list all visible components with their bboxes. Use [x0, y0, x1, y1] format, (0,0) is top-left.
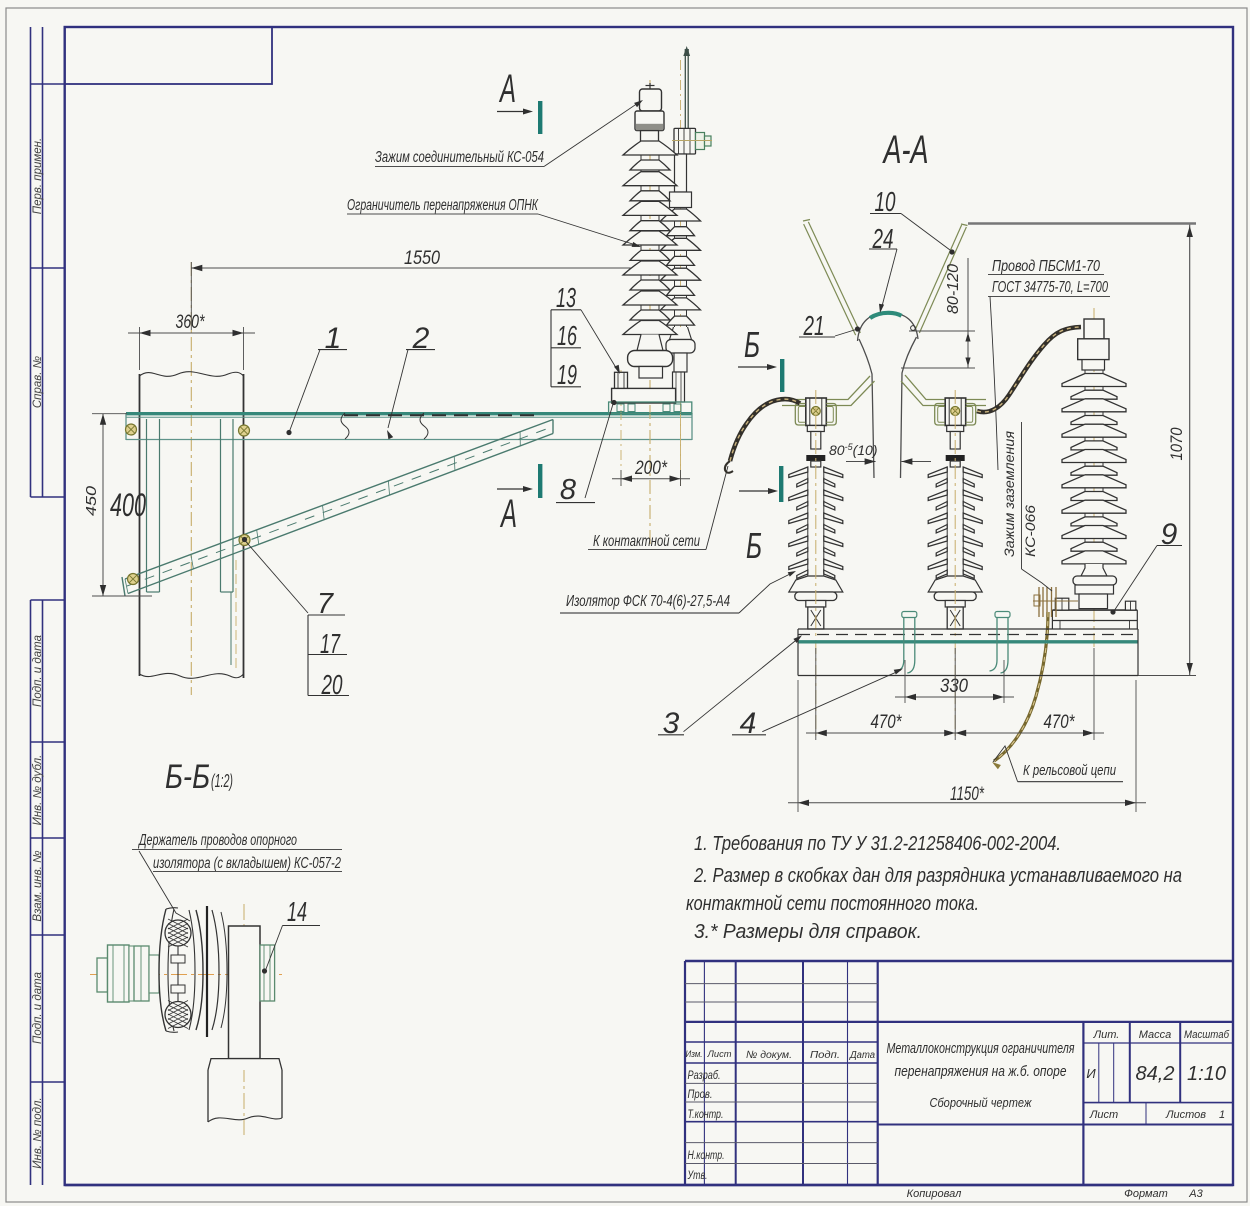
svg-text:80-120: 80-120 — [945, 264, 962, 314]
svg-text:ГОСТ 34775-70, L=700: ГОСТ 34775-70, L=700 — [992, 279, 1108, 296]
svg-text:2. Размер в скобках дан для ра: 2. Размер в скобках дан для разрядника у… — [693, 865, 1182, 887]
svg-text:А: А — [499, 67, 516, 111]
svg-text:84,2: 84,2 — [1136, 1063, 1175, 1085]
svg-text:450: 450 — [83, 485, 100, 516]
svg-text:Лист: Лист — [707, 1049, 732, 1060]
svg-text:Металлоконструкция ограничител: Металлоконструкция ограничителя — [887, 1040, 1075, 1057]
svg-text:Подп.: Подп. — [810, 1049, 840, 1061]
svg-text:Сборочный чертеж: Сборочный чертеж — [930, 1095, 1033, 1110]
svg-text:Формат: Формат — [1124, 1188, 1168, 1200]
svg-text:Инв. № дубл.: Инв. № дубл. — [32, 755, 44, 826]
svg-text:контактной сети постоянного то: контактной сети постоянного тока. — [686, 893, 979, 915]
svg-text:А3: А3 — [1188, 1188, 1203, 1200]
svg-text:3.* Размеры для справок.: 3.* Размеры для справок. — [694, 921, 922, 943]
svg-text:изолятора (с вкладышем) КС-057: изолятора (с вкладышем) КС-057-2 — [153, 855, 341, 872]
svg-text:(1:2): (1:2) — [211, 771, 233, 791]
svg-text:Инв. № подл.: Инв. № подл. — [32, 1097, 44, 1168]
svg-text:Листов: Листов — [1165, 1109, 1206, 1121]
svg-text:400: 400 — [110, 487, 146, 523]
svg-text:Масса: Масса — [1139, 1029, 1172, 1041]
svg-text:1: 1 — [1219, 1109, 1225, 1121]
svg-text:Зажим заземления: Зажим заземления — [1002, 431, 1017, 557]
svg-text:Разраб.: Разраб. — [688, 1070, 721, 1082]
svg-text:19: 19 — [557, 359, 577, 390]
svg-text:1. Требования по ТУ У 31.2-212: 1. Требования по ТУ У 31.2-21258406-002-… — [694, 833, 1061, 855]
svg-text:К контактной сети: К контактной сети — [593, 533, 700, 550]
svg-text:1150*: 1150* — [950, 784, 984, 805]
svg-text:Дата: Дата — [849, 1050, 875, 1061]
svg-text:14: 14 — [287, 896, 307, 927]
svg-text:Копировал: Копировал — [907, 1188, 962, 1200]
svg-text:Держатель проводов опорного: Держатель проводов опорного — [138, 832, 298, 849]
svg-text:Изолятор ФСК 70-4(6)-27,5-А4: Изолятор ФСК 70-4(6)-27,5-А4 — [566, 593, 730, 610]
svg-text:Лист: Лист — [1089, 1109, 1118, 1121]
svg-text:Справ. №: Справ. № — [32, 355, 44, 408]
svg-text:1:10: 1:10 — [1187, 1063, 1226, 1085]
svg-text:К рельсовой цепи: К рельсовой цепи — [1023, 762, 1116, 779]
svg-text:80-5(10): 80-5(10) — [829, 442, 878, 458]
svg-text:А: А — [500, 492, 517, 536]
svg-text:КС-066: КС-066 — [1023, 504, 1038, 557]
svg-text:Перв. примен.: Перв. примен. — [32, 138, 44, 214]
svg-text:360*: 360* — [176, 312, 205, 333]
svg-text:Провод ПБСМ1-70: Провод ПБСМ1-70 — [992, 258, 1100, 275]
svg-text:Взам. инв. №: Взам. инв. № — [32, 850, 44, 922]
svg-text:1070: 1070 — [1167, 427, 1186, 460]
svg-text:Изм.: Изм. — [686, 1049, 703, 1059]
svg-text:470*: 470* — [1044, 712, 1075, 733]
svg-text:Утв.: Утв. — [687, 1170, 708, 1182]
svg-text:Масштаб: Масштаб — [1184, 1029, 1230, 1041]
svg-text:16: 16 — [557, 320, 577, 351]
svg-text:Лит.: Лит. — [1093, 1029, 1120, 1041]
svg-text:Ограничитель перенапряжения ОП: Ограничитель перенапряжения ОПНК — [347, 197, 539, 214]
svg-text:Подп. и дата: Подп. и дата — [32, 972, 44, 1044]
svg-text:13: 13 — [556, 282, 576, 313]
svg-text:10: 10 — [875, 186, 896, 217]
svg-text:Б: Б — [744, 324, 760, 365]
svg-text:И: И — [1086, 1066, 1096, 1081]
svg-text:Т.контр.: Т.контр. — [688, 1109, 724, 1121]
svg-text:Пров.: Пров. — [688, 1089, 713, 1101]
svg-text:Б: Б — [746, 525, 762, 566]
svg-text:перенапряжения на ж.б. опоре: перенапряжения на ж.б. опоре — [895, 1063, 1067, 1080]
svg-text:Б-Б: Б-Б — [165, 758, 210, 796]
svg-text:Подп. и дата: Подп. и дата — [32, 635, 44, 707]
svg-text:А-А: А-А — [882, 128, 928, 172]
svg-text:330: 330 — [940, 676, 968, 697]
svg-text:470*: 470* — [871, 712, 902, 733]
svg-text:8: 8 — [560, 474, 576, 506]
svg-text:200*: 200* — [634, 458, 667, 479]
svg-text:Зажим соединительный КС-054: Зажим соединительный КС-054 — [375, 149, 544, 166]
svg-text:№ докум.: № докум. — [746, 1049, 792, 1061]
svg-text:1550: 1550 — [404, 248, 440, 269]
svg-text:21: 21 — [803, 310, 825, 341]
svg-text:Н.контр.: Н.контр. — [688, 1150, 725, 1162]
